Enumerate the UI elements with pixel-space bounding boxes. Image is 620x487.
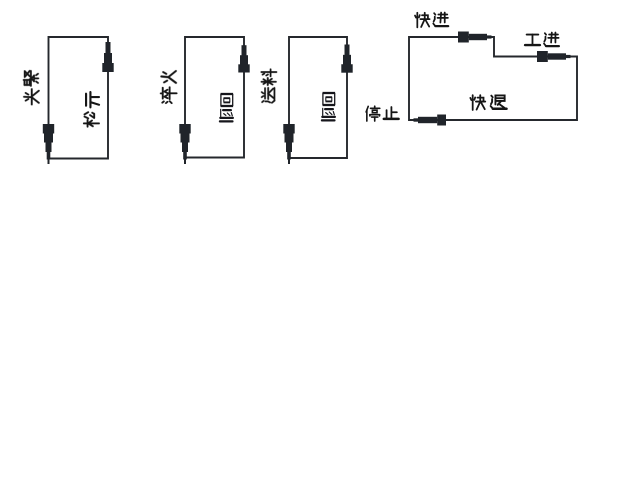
loop 3 down arrow: [283, 124, 294, 164]
label 返回 (rotated): [322, 108, 335, 120]
label 夹紧 (rotated): [24, 89, 39, 104]
big loop wire (power slide cycle): [409, 37, 577, 120]
label 返回 (rotated): [220, 109, 233, 121]
label 送料 (rotated): [262, 88, 275, 103]
loop 2 up arrow: [238, 45, 249, 72]
label 松开 (rotated): [84, 112, 99, 127]
loop 1 rectangle wire (clamp cylinder cycle): [49, 37, 109, 159]
loop 1 down arrow (clamp stroke): [43, 124, 54, 164]
label 停止: [366, 106, 380, 121]
loop 3 up arrow: [341, 45, 352, 73]
loop 1 up arrow (release stroke): [102, 42, 113, 72]
loop 2 down arrow: [179, 124, 190, 164]
loop 3 rectangle wire: [289, 37, 347, 158]
label 淬火 (rotated): [161, 87, 177, 103]
loop 2 rectangle wire: [185, 37, 244, 158]
rapid return arrow: [414, 115, 447, 126]
work feed arrow: [537, 51, 571, 62]
label 快进: [415, 13, 430, 28]
label 工进: [525, 35, 540, 45]
rapid advance arrow: [458, 32, 492, 43]
label 快退: [470, 95, 485, 110]
